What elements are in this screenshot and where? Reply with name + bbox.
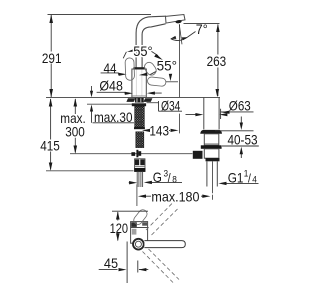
svg-text:44: 44 bbox=[104, 61, 117, 76]
svg-text:40-53: 40-53 bbox=[228, 133, 258, 148]
svg-text:415: 415 bbox=[40, 139, 60, 154]
svg-text:143: 143 bbox=[149, 124, 169, 139]
svg-text:291: 291 bbox=[42, 51, 62, 66]
svg-text:263: 263 bbox=[207, 54, 227, 69]
svg-text:8: 8 bbox=[172, 174, 177, 185]
svg-text:Ø48: Ø48 bbox=[99, 78, 122, 94]
svg-text:max.180: max.180 bbox=[151, 189, 199, 205]
svg-text:G1: G1 bbox=[228, 171, 244, 186]
svg-text:7°: 7° bbox=[196, 22, 208, 38]
svg-text:300: 300 bbox=[65, 125, 85, 140]
svg-text:45: 45 bbox=[104, 256, 118, 271]
svg-text:G: G bbox=[153, 170, 162, 185]
svg-text:Ø63: Ø63 bbox=[229, 99, 251, 114]
svg-text:120: 120 bbox=[110, 221, 129, 236]
svg-text:max.30: max.30 bbox=[94, 110, 132, 125]
svg-text:4: 4 bbox=[252, 174, 257, 185]
svg-text:Ø34: Ø34 bbox=[161, 98, 181, 114]
svg-text:55°: 55° bbox=[157, 58, 177, 73]
svg-text:55°: 55° bbox=[133, 43, 152, 58]
